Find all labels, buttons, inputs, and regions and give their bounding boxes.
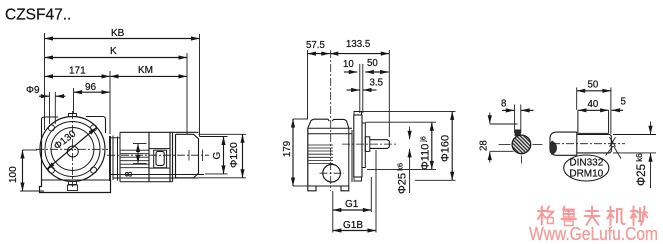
flange inner circle [51, 128, 94, 171]
bolt hole bottom-left [48, 167, 54, 173]
center cross inner [188, 150, 190, 161]
ext line G1 right [370, 177, 372, 212]
horizontal centerline flange [36, 148, 108, 150]
bore section circle [512, 135, 531, 154]
shaft phi25 body [577, 135, 612, 153]
flange spigot [362, 123, 365, 168]
output axis centerline mid [342, 143, 397, 145]
dim KM [110, 65, 187, 76]
dim 5 shaft [612, 97, 626, 111]
svg-text:28: 28 [479, 140, 490, 151]
dim KB [45, 28, 200, 137]
svg-text:8: 8 [501, 99, 506, 110]
dim 179 [282, 119, 308, 186]
output shaft mid [370, 140, 390, 149]
bolt hole top-right [91, 125, 97, 131]
middle body fins [309, 145, 334, 164]
char ge [538, 207, 554, 225]
output flange outer circle [40, 117, 105, 182]
dim G1 [333, 199, 372, 210]
middle body bottom [308, 185, 349, 187]
svg-text:100: 100 [8, 166, 19, 183]
dim 40 shaft [578, 99, 609, 110]
dim 57.5 [306, 40, 330, 119]
middle body cap left [308, 119, 330, 128]
dim 96 [74, 82, 111, 114]
motor body top [120, 131, 199, 133]
DIN332 callout ellipse [564, 155, 609, 181]
bolt hole bottom-right [91, 167, 97, 173]
vertical centerline flange [72, 111, 74, 187]
dim Phi160 [362, 111, 456, 180]
svg-text:Φ9: Φ9 [26, 85, 40, 96]
svg-text:Www.GeLufu.Com: Www.GeLufu.Com [529, 223, 658, 244]
svg-text:5: 5 [621, 97, 626, 108]
char xie [631, 207, 647, 226]
dim Phi9 [26, 85, 66, 124]
svg-text:8: 8 [124, 171, 135, 177]
svg-text:133.5: 133.5 [346, 39, 370, 50]
bolt hole top-left [48, 125, 54, 131]
fan cover joint [172, 132, 174, 181]
dim 8 motor key [124, 144, 147, 178]
svg-text:50: 50 [367, 58, 378, 69]
shaft stub cylinder [550, 132, 577, 155]
svg-text:Φ120: Φ120 [228, 142, 240, 168]
dim Phi130 diagonal [47, 128, 97, 170]
svg-text:171: 171 [69, 66, 86, 77]
dim 8 keyway [501, 99, 534, 134]
dim Phi25 k6 mid [396, 127, 410, 195]
base under housing [42, 179, 111, 181]
output flange disk [354, 115, 362, 177]
shaft collar mid [365, 137, 370, 152]
dim Phi25 k6 right [613, 122, 656, 189]
svg-text:40: 40 [588, 99, 599, 110]
middle body left edge [307, 128, 309, 186]
circle horizontal tick [320, 172, 345, 174]
watermark chinese characters [538, 207, 647, 226]
dim 10 [343, 59, 363, 113]
svg-text:G1: G1 [345, 199, 359, 210]
svg-text:Φ160: Φ160 [440, 135, 452, 162]
svg-text:3.5: 3.5 [370, 78, 383, 89]
leader to ellipse [606, 146, 614, 156]
svg-text:57.5: 57.5 [306, 40, 325, 51]
left foot [308, 186, 316, 191]
housing outline left view [42, 117, 59, 131]
char ji [608, 207, 625, 226]
dim 100 [8, 150, 44, 191]
dim 28 [479, 113, 518, 163]
middle body shoulder line [308, 127, 352, 129]
right foot [341, 186, 349, 191]
input axis centerline [330, 50, 332, 191]
middle body cap right [332, 119, 349, 128]
svg-text:96: 96 [85, 82, 97, 93]
keyway notch [515, 130, 521, 137]
dim G [200, 137, 228, 174]
ext line G1B right [375, 150, 377, 233]
svg-text:DRM10: DRM10 [569, 169, 603, 180]
ext line G1 left [332, 191, 334, 233]
key on shaft [577, 110, 579, 133]
svg-text:KM: KM [138, 65, 153, 76]
dim 50 shaft [577, 80, 611, 135]
svg-text:KB: KB [111, 28, 125, 39]
section centerline vertical [520, 156, 522, 164]
flange top tab [354, 112, 362, 116]
input shaft circle [323, 164, 341, 182]
svg-text:CZSF47..: CZSF47.. [5, 7, 71, 24]
fan cover [176, 134, 199, 178]
svg-text:179: 179 [282, 141, 293, 157]
dim 50 mid [365, 58, 388, 72]
hub circle [67, 146, 78, 157]
terminal box [148, 132, 150, 181]
leader right [614, 146, 622, 159]
center cross end [202, 150, 204, 162]
dim 3.5 [347, 78, 383, 91]
flange bottom tab [354, 177, 362, 181]
dim G1B [333, 220, 376, 231]
svg-text:G1B: G1B [343, 220, 363, 231]
dim 133.5 [330, 39, 390, 137]
flange ring circle [45, 122, 100, 177]
svg-text:50: 50 [588, 80, 599, 91]
section centerline horizontal [499, 143, 511, 145]
middle body right edge [348, 128, 350, 186]
svg-text:K: K [110, 46, 117, 57]
motor body bottom lines [110, 174, 204, 176]
dim K [45, 46, 188, 134]
center hole X mark [610, 137, 616, 146]
motor centerline [107, 154, 209, 156]
svg-text:DIN332: DIN332 [569, 158, 603, 169]
base plug detail [68, 185, 78, 191]
char lu [562, 207, 577, 226]
motor fins [120, 150, 149, 168]
svg-text:10: 10 [343, 59, 354, 70]
char fu [585, 207, 600, 225]
motor flange face [109, 136, 111, 181]
flange joint line [351, 130, 353, 182]
dim 171 [45, 66, 111, 135]
bottom lug [69, 181, 77, 185]
middle body line2 [308, 133, 352, 135]
dim Phi120 [199, 134, 247, 178]
top lug [69, 114, 77, 118]
shaft centerline [552, 143, 625, 145]
svg-text:G: G [212, 152, 223, 160]
dim Phi110 j6 [365, 122, 436, 170]
break hatch blob [550, 141, 557, 155]
